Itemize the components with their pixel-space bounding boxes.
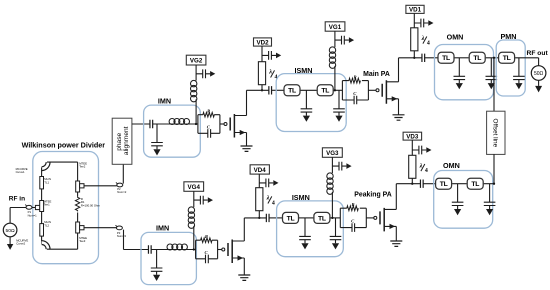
wire VD1 to drain node (413, 51, 415, 58)
shunt capacitor with ground 2 upper ISMN (333, 90, 345, 122)
transmission line TL box 1 upper OMN (438, 52, 454, 63)
bypass capacitor VD1 (414, 19, 433, 28)
tee junction Tee2 (76, 181, 84, 192)
curve bend bottom-left of divider (42, 243, 49, 250)
node VG3 junction (331, 217, 333, 219)
microstrip line TL1 (40, 177, 44, 189)
capacitor series output lower (420, 180, 423, 188)
wire divider output upper (84, 185, 117, 187)
transmission line TL box 2 lower ISMN (314, 212, 330, 223)
wire VG2 feed upper (195, 65, 197, 81)
label lambda/4 VD2 (268, 69, 277, 81)
svg-text:50Ω: 50Ω (6, 228, 15, 234)
shunt capacitor with ground upper IMN (151, 124, 163, 156)
node offset junction (493, 183, 495, 185)
wire right branch mid upper (77, 192, 79, 196)
transmission line TL box 2 upper OMN (469, 52, 485, 63)
VG3 bias label box (322, 148, 342, 158)
wire Q4 source to ground (395, 226, 397, 240)
wire VD2 feed (261, 46, 263, 62)
wire right branch bottom (77, 233, 79, 249)
VG4 bias label box (184, 182, 204, 192)
wire Q1 drain to ISMN (247, 89, 269, 91)
transistor Q4 Peaking PA (374, 208, 397, 232)
svg-text:RF in: RF in (9, 195, 25, 202)
svg-text:Num=3: Num=3 (117, 234, 127, 238)
svg-text:Tee2: Tee2 (79, 165, 86, 169)
OMN upper enclosure (435, 45, 494, 100)
svg-text:OMN: OMN (443, 161, 460, 170)
wire phase alignment to upper IMN (132, 123, 150, 125)
capacitor series lower IMN (148, 245, 151, 253)
label MCURVE Curve2 (16, 238, 28, 245)
svg-text:Curve1: Curve1 (16, 170, 25, 174)
shunt capacitor with ground 2 upper OMN (486, 58, 498, 90)
wire VG2 feed lower (195, 99, 197, 124)
bypass capacitor VG3 (332, 162, 351, 171)
svg-text:IMN: IMN (158, 97, 171, 106)
port P1 symbol (25, 205, 32, 210)
wire VD2 to drain node (261, 85, 263, 91)
inductor bias choke VG4 (188, 207, 194, 228)
transistor Q2 Main PA (376, 80, 399, 104)
label P3 Num=3 (117, 231, 127, 238)
shunt capacitor with ground 2 lower ISMN (330, 218, 342, 250)
quarter-wave line VD1 (411, 28, 418, 51)
wire summing node to offset line (493, 58, 495, 111)
wire between TL boxes lower ISMN (299, 217, 313, 219)
shunt capacitor with ground 1 lower ISMN (299, 218, 311, 250)
IMN lower enclosure (141, 232, 196, 284)
label MCURVE Curve1 (16, 167, 28, 174)
svg-text:TL2: TL2 (44, 223, 49, 227)
OMN lower enclosure (434, 171, 493, 229)
label lambda/4 VD4 (266, 195, 275, 207)
node VG4 junction (193, 248, 195, 250)
capacitor series upper IMN (150, 120, 153, 128)
label MLIN TL2 (44, 220, 51, 227)
tee junction Tee3 (76, 222, 84, 233)
label P1 Num=1 (28, 210, 38, 217)
svg-text:VG1: VG1 (329, 24, 342, 31)
node VG1 junction (334, 89, 336, 91)
svg-text:VD4: VD4 (254, 167, 267, 174)
svg-text:Curve2: Curve2 (16, 242, 25, 246)
port P3 symbol (116, 225, 123, 230)
wire VD4 to drain node (258, 211, 260, 218)
node VD2 junction (261, 89, 263, 91)
ground Q2 (393, 115, 405, 120)
wire source riser (9, 208, 11, 224)
wire capacitor to ISMN (272, 89, 284, 91)
svg-text:VG4: VG4 (188, 184, 201, 191)
inductor bias choke VG1 (329, 47, 335, 68)
transmission line TL box 2 lower OMN (467, 178, 483, 189)
wire right branch upper (77, 162, 79, 181)
wire left branch upper (41, 167, 43, 176)
offset line block (487, 111, 505, 154)
wire VG4 feed upper (193, 191, 195, 207)
node VG2 junction (195, 123, 197, 125)
node VD1 junction (413, 57, 415, 59)
wire Q2 source to ground (398, 99, 400, 115)
svg-text:Peaking PA: Peaking PA (354, 192, 391, 199)
wire divider output lower (84, 227, 117, 229)
VD3 bias label box (403, 132, 422, 140)
wire right branch mid lower (77, 213, 79, 223)
wire TL2 to RC upper (334, 89, 343, 91)
wire between TL boxes upper ISMN (301, 89, 317, 91)
microstrip line TL2 (40, 224, 44, 237)
capacitor series interstage upper (269, 86, 272, 94)
curve bend top-left of divider (42, 162, 49, 169)
ISMN upper enclosure (276, 74, 346, 132)
shunt capacitor with ground 1 upper ISMN (301, 90, 313, 122)
port P2 symbol (116, 182, 123, 187)
transistor Q1 driver upper (224, 114, 247, 138)
Wilkinson power Divider enclosure (33, 152, 99, 264)
wire Q3 source to ground (243, 258, 245, 275)
wire Q4 drain riser (395, 184, 397, 210)
wire OMN to PMN (486, 57, 499, 59)
node summing junction (493, 57, 495, 59)
label lambda/4 VD3 (419, 162, 428, 174)
svg-text:VD3: VD3 (406, 134, 419, 141)
wire Q3 drain riser (243, 218, 245, 241)
node VD3 junction (411, 183, 413, 185)
wire RC to Peaking PA gate (366, 217, 374, 219)
wire VD3 feed (411, 140, 413, 155)
wire RC to driver gate lower (218, 249, 222, 251)
wire Q4 drain to OMN lower (396, 183, 420, 185)
svg-text:VG2: VG2 (190, 58, 203, 65)
transistor Q3 driver lower (222, 240, 245, 264)
source ground arrow (7, 237, 13, 250)
shunt capacitor with ground 1 upper OMN (454, 58, 466, 90)
RC network Peaking PA (340, 202, 366, 232)
wire divider bottom rail (47, 248, 78, 250)
ISMN lower enclosure (277, 201, 344, 257)
VD4 bias label box (250, 165, 269, 174)
transmission line TL box PMN (499, 52, 515, 63)
quarter-wave line VD3 (409, 155, 416, 178)
svg-text:Wilkinson power Divider: Wilkinson power Divider (22, 140, 106, 149)
tee junction Tee1 (35, 201, 43, 212)
wire left branch lower (41, 212, 43, 224)
label MTEE Tee3 (79, 236, 87, 243)
bypass capacitor VG2 (196, 69, 215, 78)
wire Q3 drain to ISMN lower (244, 217, 266, 219)
RC network driver lower (196, 234, 218, 263)
wire left branch middle (41, 189, 43, 201)
wire capacitor to ISMN lower (269, 217, 282, 219)
phase alignment block (112, 118, 132, 164)
inductor bias choke VG3 (327, 173, 333, 194)
RC network driver upper (198, 108, 220, 137)
svg-text:VD1: VD1 (409, 7, 422, 14)
svg-text:Tee3: Tee3 (79, 239, 86, 243)
capacitor series interstage lower (266, 214, 269, 222)
VG1 bias label box (325, 22, 345, 31)
wire RC to Main PA gate (368, 89, 376, 91)
IMN upper enclosure (144, 105, 201, 157)
load ground arrow (535, 80, 542, 92)
wire lower OMN to offset line (484, 183, 494, 185)
wire lower IMN (151, 249, 195, 251)
wire RC to driver gate upper (220, 123, 224, 125)
wire Q2 drain riser (398, 58, 400, 82)
bypass capacitor VG1 (335, 36, 354, 45)
wire PMN to RF out (515, 57, 539, 59)
wire divider top rail (47, 161, 78, 163)
wire VD4 feed (258, 174, 260, 188)
wire Q1 source to ground (246, 133, 248, 146)
svg-text:OMN: OMN (447, 33, 464, 42)
inductor series lower IMN (167, 244, 187, 250)
svg-text:Num=1: Num=1 (28, 213, 38, 217)
label P2 Num=2 (117, 187, 127, 194)
wire RF out riser (538, 58, 540, 66)
capacitor series output upper (422, 54, 425, 62)
VD2 bias label box (254, 38, 272, 46)
quarter-wave line VD4 (256, 188, 263, 211)
wire P3 down to lower IMN (124, 230, 149, 250)
transmission line TL box 2 upper ISMN (317, 85, 333, 96)
svg-text:Num=2: Num=2 (117, 190, 127, 194)
wire RF in to divider input (10, 207, 35, 209)
wire between TL boxes upper OMN (455, 57, 469, 59)
ground Q1 (241, 146, 253, 151)
transmission line TL box 1 upper ISMN (284, 85, 300, 96)
wire capacitor to OMN lower (423, 183, 435, 185)
wire VD1 feed (413, 13, 415, 27)
isolation resistor R1 (75, 196, 79, 211)
wire offset line to lower OMN (493, 154, 495, 184)
bypass capacitor VG4 (194, 196, 213, 205)
shunt capacitor with ground lower IMN (151, 250, 163, 282)
wire upper IMN (153, 123, 198, 125)
svg-text:IMN: IMN (156, 224, 169, 233)
inductor bias choke VG2 (191, 80, 197, 101)
quarter-wave line VD2 (258, 62, 265, 85)
wire VG1 feed lower (334, 66, 336, 90)
wire capacitor to OMN (425, 57, 438, 59)
label R R1 R=100.00 Ohm (81, 197, 101, 207)
bypass capacitor VD3 (412, 146, 431, 155)
svg-text:R=100.00 Ohm: R=100.00 Ohm (81, 203, 101, 207)
wire VG3 feed lower (331, 192, 333, 218)
svg-text:Main PA: Main PA (363, 71, 390, 78)
svg-text:TL1: TL1 (44, 180, 49, 184)
VG2 bias label box (186, 55, 206, 65)
bypass capacitor VD2 (262, 51, 281, 60)
ground Q3 (238, 275, 250, 280)
svg-text:Tee1: Tee1 (44, 203, 51, 207)
RC network Main PA (342, 74, 368, 104)
PMN enclosure (496, 40, 525, 96)
bypass capacitor VD4 (259, 179, 278, 188)
50 ohm load (531, 66, 546, 81)
svg-text:Offset line: Offset line (492, 118, 499, 147)
wire VG3 feed upper (331, 157, 333, 173)
50 ohm source (3, 223, 17, 237)
wire Q1 drain riser (246, 90, 248, 115)
transmission line TL box 1 lower OMN (436, 178, 452, 189)
node VD4 junction (258, 217, 260, 219)
VD1 bias label box (406, 5, 424, 13)
wire between TL boxes lower OMN (452, 183, 467, 185)
label MTEE Tee1 (44, 199, 52, 206)
wire left branch bottom (41, 236, 43, 244)
shunt capacitor with ground 1 lower OMN (452, 184, 464, 216)
wire VG1 feed upper (334, 31, 336, 47)
svg-text:VD2: VD2 (256, 39, 269, 46)
label MTEE Tee2 (79, 161, 87, 168)
svg-text:RF out: RF out (527, 50, 549, 57)
wire VD3 to drain node (411, 178, 413, 183)
shunt capacitor with ground 2 lower OMN (484, 184, 496, 216)
inductor series upper IMN (169, 119, 189, 125)
svg-text:VG3: VG3 (326, 150, 339, 157)
shunt capacitor with ground PMN (513, 58, 525, 90)
label MLIN TL1 (44, 177, 51, 184)
svg-text:50Ω: 50Ω (534, 71, 544, 77)
svg-text:alignment: alignment (123, 126, 130, 155)
transmission line TL box 1 lower ISMN (283, 212, 299, 223)
label lambda/4 VD1 (421, 35, 430, 47)
wire P2 to phase alignment (122, 164, 124, 183)
wire Q2 drain to OMN (399, 57, 422, 59)
wire VG4 feed lower (193, 226, 195, 250)
wire TL2 to RC lower (330, 217, 340, 219)
ground Q4 (390, 241, 402, 246)
